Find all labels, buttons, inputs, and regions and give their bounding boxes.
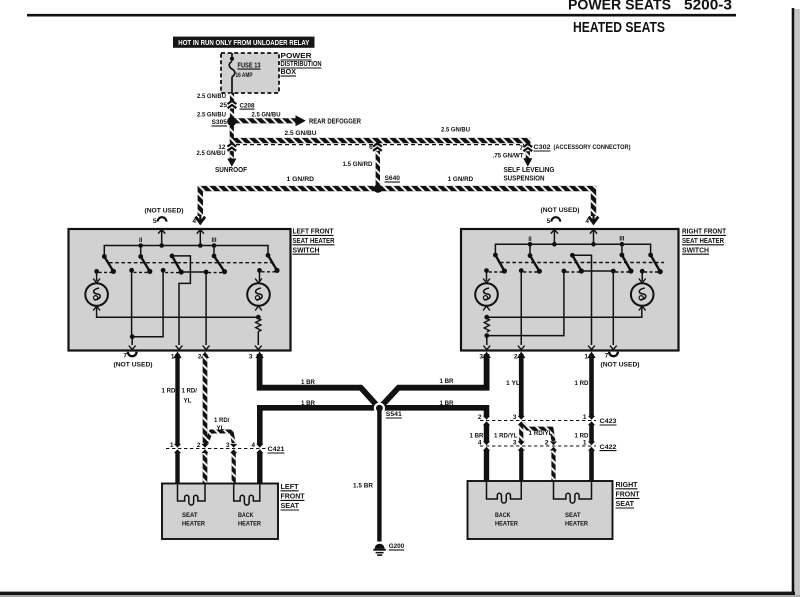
label C422 pin 3 (513, 440, 517, 447)
right front seat heater switch box (461, 229, 679, 351)
label G200 (389, 543, 405, 550)
svg-text:HOT IN RUN ONLY FROM UNLOADER: HOT IN RUN ONLY FROM UNLOADER RELAY (178, 40, 309, 47)
svg-text:SEAT: SEAT (182, 512, 198, 519)
right drop contact to pin3 jog (484, 269, 566, 338)
right switch mechanical dashed line (500, 262, 664, 264)
svg-text:7: 7 (519, 145, 523, 152)
label C421 pin 2 (197, 442, 201, 449)
left switch mechanical dashed line (109, 262, 272, 264)
wire 2.5 GN/BU C208 to S305 (230, 108, 234, 121)
indicator lamp right-B (631, 279, 654, 311)
svg-text:G200: G200 (389, 543, 405, 550)
label SEAT HEATER (right seat) (565, 512, 588, 528)
label (NOT USED) left pin 7 (114, 362, 153, 369)
label SELF LEVELING SUSPENSION (504, 167, 556, 182)
wire 2.5 GN/BU to rear defogger (232, 115, 306, 126)
indicator lamp right-A (475, 279, 498, 311)
page right border (792, 8, 795, 594)
connector C302 pin 7 (519, 144, 630, 152)
svg-text:2.5 GN/BU: 2.5 GN/BU (197, 111, 226, 118)
wire 1 RD/YL C423 pin3 to C422 pin3 (517, 425, 526, 481)
wire 1 BR S541 to C423 pin 2 (379, 408, 491, 481)
connector C208 pin 25 (220, 101, 255, 110)
right bus drop to pivot 4 (621, 244, 623, 255)
svg-text:C423: C423 (600, 418, 617, 425)
label C422 pin 2 (545, 440, 549, 447)
svg-text:1 RD: 1 RD (575, 380, 589, 387)
label HOT IN RUN ONLY FROM UNLOADER RELAY (173, 37, 315, 48)
left front seat heater switch box (69, 229, 291, 351)
svg-text:SEAT HEATER: SEAT HEATER (293, 238, 335, 245)
left lamp 1 terminal (94, 269, 99, 281)
right contact to pin 7 link (581, 269, 616, 350)
right switch arm 5 (648, 253, 663, 275)
wire 2.5 GN/BU to sunroof (227, 151, 236, 167)
label III (right box) (619, 237, 624, 243)
label LEFT FRONT SEAT (281, 484, 306, 510)
label BACK HEATER (right seat) (495, 512, 518, 528)
right lamp 1 terminal (484, 268, 489, 281)
label II (left box) (139, 238, 143, 244)
svg-text:5200-3: 5200-3 (684, 0, 732, 14)
wire 1 BR right switch pin3 to S541 (379, 352, 490, 409)
connector C423 dashed line (480, 420, 596, 422)
svg-text:SWITCH: SWITCH (293, 247, 320, 254)
right switch supply bus (495, 242, 650, 255)
svg-text:5: 5 (547, 218, 551, 225)
svg-text:4: 4 (192, 218, 196, 225)
left bus drop to pivot 4 (213, 246, 215, 256)
right seat heater element (554, 481, 592, 503)
svg-text:SEAT: SEAT (616, 501, 635, 508)
svg-text:HEATER: HEATER (495, 521, 518, 528)
svg-text:1 BR: 1 BR (301, 400, 315, 407)
wire 1 RD right pin1 to seat (587, 352, 596, 482)
label 2.5 GN/BU (sunroof) (197, 150, 226, 157)
svg-text:II: II (528, 237, 532, 243)
svg-text:REAR DEFOGGER: REAR DEFOGGER (309, 119, 361, 126)
label C421 pin 3 (226, 442, 230, 449)
left pin 5 not-used arc (153, 217, 167, 225)
svg-text:YL: YL (217, 425, 225, 432)
svg-text:BOX: BOX (281, 69, 297, 76)
wire 1.5 GN/RD junction 6 to S640 (376, 151, 380, 188)
svg-text:1 RD: 1 RD (162, 388, 176, 395)
label FUSE 13 16 AMP (236, 62, 261, 79)
left jumper 1 RD/YL C421 pin2 to pin3 (207, 432, 234, 444)
wire 1 RD/YL left pin2 to seat (201, 352, 210, 484)
right drop contact to pin 2 (518, 268, 525, 349)
svg-text:4: 4 (478, 440, 482, 447)
svg-text:1: 1 (170, 442, 174, 449)
svg-text:III: III (211, 238, 216, 244)
left bus drop to pivot 2 (140, 246, 142, 257)
right pin 7 not-used arc (605, 352, 618, 360)
svg-text:HEATER: HEATER (565, 521, 588, 528)
splice S305 (227, 117, 236, 126)
left contact dashes (99, 271, 275, 274)
svg-text:1.5 BR: 1.5 BR (353, 483, 373, 490)
svg-text:DISTRIBUTION: DISTRIBUTION (281, 61, 322, 68)
wire end V at left switch pin 4 (196, 215, 206, 224)
label 1 BR (upper right) (440, 378, 454, 385)
svg-text:HEATER: HEATER (238, 521, 261, 528)
label 2.5 GN/BU (defogger branch) (252, 111, 281, 118)
svg-text:2.5 GN/BU: 2.5 GN/BU (285, 130, 317, 137)
left pin 7 not-used arc (123, 352, 136, 360)
svg-text:16 AMP: 16 AMP (236, 72, 254, 79)
svg-text:HEATER: HEATER (182, 521, 205, 528)
label C421 pin 1 (170, 442, 174, 449)
right switch arm 3 (570, 253, 584, 274)
connector pin 12 (218, 143, 236, 150)
connector C421 dashed line (166, 448, 266, 450)
wire 2.5 GN/BU tee to C302 corner (232, 141, 528, 144)
svg-text:BACK: BACK (495, 512, 511, 519)
left contact to pin 2 link (181, 270, 209, 350)
title POWER SEATS 5200-3 (568, 0, 732, 14)
label 1 RD (left) (162, 388, 176, 395)
label 1 BR (lower right) (440, 400, 454, 407)
left lamp 2 terminal (257, 268, 262, 281)
svg-text:POWER: POWER (281, 53, 312, 60)
label RIGHT FRONT SEAT HEATER SWITCH (682, 229, 727, 255)
label 1 YL (506, 380, 520, 387)
svg-text:2: 2 (198, 353, 202, 360)
right pin 4 entry (590, 229, 597, 244)
label left pin 2 (198, 353, 202, 360)
svg-text:2.5 GN/BU: 2.5 GN/BU (197, 93, 226, 100)
right lamp bottom bus (484, 306, 641, 320)
svg-text:3: 3 (513, 414, 517, 421)
left drop contact to pin7 jog B (130, 268, 166, 339)
dashed connector plane line (236, 144, 524, 146)
right contact dashes (489, 271, 658, 273)
label (NOT USED) right pin 7 (601, 362, 640, 369)
svg-text:1 BR: 1 BR (440, 400, 454, 407)
left pin 5 entry (158, 229, 165, 246)
svg-text:FRONT: FRONT (281, 494, 306, 501)
svg-text:1 RD: 1 RD (575, 433, 589, 440)
label 2.5 GN/BU (above S305) (197, 111, 226, 118)
svg-text:SUNROOF: SUNROOF (215, 167, 248, 174)
svg-text:1 RD/: 1 RD/ (214, 417, 230, 424)
label C422 (600, 444, 617, 451)
svg-text:LEFT FRONT: LEFT FRONT (293, 229, 335, 236)
label left pin 1 (171, 353, 175, 360)
svg-text:SUSPENSION: SUSPENSION (504, 175, 545, 182)
left front seat box (162, 484, 278, 540)
svg-text:2: 2 (545, 440, 549, 447)
label left pin 3 (249, 353, 253, 360)
svg-text:1 GN/RD: 1 GN/RD (287, 176, 315, 183)
svg-text:S305: S305 (212, 119, 228, 126)
left switch arm 4 (212, 254, 227, 275)
label C422 pin 1 (583, 440, 587, 447)
svg-text:1 BR: 1 BR (470, 433, 484, 440)
label LEFT FRONT SEAT HEATER SWITCH (293, 229, 335, 255)
left pivot3 route to pin 1 (172, 256, 190, 350)
page bottom margin shading (0, 595, 800, 597)
svg-text:1 RD/YL: 1 RD/YL (529, 430, 553, 437)
page bottom rule (0, 592, 795, 595)
right switch arm 4 (620, 253, 634, 274)
wire end V at right switch pin 4 (589, 215, 599, 224)
right lamp 2 terminal (640, 269, 645, 281)
svg-text:S541: S541 (386, 411, 402, 418)
svg-text:2: 2 (197, 442, 201, 449)
svg-text:(NOT USED): (NOT USED) (114, 362, 153, 369)
label 2.5 GN/BU (fuse out) (197, 93, 226, 100)
label 1 BR (between C423 C422) (470, 433, 484, 440)
svg-text:BACK: BACK (238, 512, 254, 519)
label 1 RD (right upper) (575, 380, 589, 387)
right resistor (483, 319, 490, 350)
svg-text:2.5 GN/BU: 2.5 GN/BU (197, 150, 226, 157)
left switch supply bus (104, 243, 268, 256)
label left pin 4 (192, 218, 196, 225)
left seat heater element (178, 484, 206, 506)
label III (left box) (211, 238, 216, 244)
subtitle HEATED SEATS (573, 20, 665, 36)
svg-text:FUSE 13: FUSE 13 (238, 62, 261, 69)
label 2.5 GN/BU (junction 6 to C302) (441, 127, 470, 134)
fuse F13 symbol (229, 62, 235, 94)
left switch arm 1 (102, 254, 116, 274)
left pin 4 entry (197, 229, 204, 246)
wire 1 BR S541 to C421 pin 4 (255, 408, 379, 484)
svg-text:1.5 GN/RD: 1.5 GN/RD (343, 161, 373, 168)
label S640 (385, 175, 401, 182)
wire .75 GN/WT to self leveling (523, 151, 532, 166)
svg-text:RIGHT: RIGHT (616, 482, 639, 489)
svg-text:C422: C422 (600, 444, 617, 451)
page top rule (27, 14, 736, 17)
right front seat box (468, 481, 613, 539)
label SUNROOF (215, 167, 248, 174)
svg-text:1 RD/YL: 1 RD/YL (494, 433, 518, 440)
svg-text:3: 3 (479, 353, 483, 360)
page right margin shading (795, 9, 800, 597)
left switch arm 5 (266, 253, 280, 273)
junction 6 connector (369, 143, 382, 151)
right bus drop to pivot 2 (529, 244, 531, 255)
svg-text:7: 7 (605, 352, 609, 359)
svg-text:.75 GN/WT: .75 GN/WT (493, 153, 524, 160)
ground G200 (373, 544, 385, 556)
power distribution box (221, 53, 279, 93)
svg-text:3: 3 (226, 442, 230, 449)
svg-text:(NOT USED): (NOT USED) (601, 362, 640, 369)
svg-text:6: 6 (369, 144, 373, 151)
label SEAT HEATER (left seat) (182, 512, 205, 528)
label S305 (212, 119, 228, 126)
svg-text:RIGHT FRONT: RIGHT FRONT (682, 229, 727, 236)
svg-text:C421: C421 (268, 446, 285, 453)
connector C422 dashed line (480, 445, 596, 447)
label 1 RD/YL (right jumper) (529, 430, 553, 437)
splice S640 (374, 184, 382, 192)
label 1 BR (lower left) (301, 400, 315, 407)
left pin 7 drop (129, 337, 136, 350)
label REAR DEFOGGER (309, 119, 361, 126)
svg-text:5: 5 (153, 218, 157, 225)
svg-text:HEATED SEATS: HEATED SEATS (573, 20, 665, 36)
svg-text:25: 25 (220, 102, 228, 109)
label 1 RD/YL (right column) (494, 433, 518, 440)
indicator lamp left-B (247, 279, 270, 311)
svg-text:SWITCH: SWITCH (682, 247, 709, 254)
svg-text:2: 2 (478, 414, 482, 421)
svg-text:SEAT HEATER: SEAT HEATER (682, 238, 724, 245)
svg-text:LEFT: LEFT (281, 484, 300, 491)
svg-text:1: 1 (584, 353, 588, 360)
label C421 pin 4 (251, 442, 255, 449)
wire 1 RD left pin1 to seat (173, 352, 182, 484)
wire 1 RD/YL C422 pin2 to seat (549, 441, 558, 481)
wire 1 GN/RD main distribution (200, 189, 593, 216)
label (NOT USED) left pin 5 (145, 208, 184, 215)
label 2.5 GN/BU (tee to junction 6) (285, 130, 317, 137)
label 1.5 GN/RD (343, 161, 373, 168)
label 1 BR (upper left) (301, 379, 315, 386)
left switch arm 3 (170, 254, 184, 275)
left switch arm 2 (138, 254, 152, 274)
label C423 pin 1 (583, 414, 587, 421)
label right pin 4 (585, 218, 589, 225)
svg-text:1 YL: 1 YL (506, 380, 520, 387)
wire 1 RD/YL C421 pin3 to seat (229, 444, 238, 484)
left drop contact to pin7 jog A (129, 268, 134, 337)
svg-text:(NOT USED): (NOT USED) (145, 208, 184, 215)
svg-text:3: 3 (513, 440, 517, 447)
svg-text:SEAT: SEAT (281, 503, 300, 510)
svg-text:1 RD/: 1 RD/ (182, 388, 198, 395)
label right pin 1 (584, 353, 588, 360)
right pivot3 route to pin 1 (572, 255, 595, 349)
right pin 5 entry (551, 229, 558, 244)
wire 2.5 GN/BU S305 down to tee (230, 121, 234, 143)
label BACK HEATER (left seat) (238, 512, 261, 528)
label S541 (386, 411, 402, 418)
svg-text:1: 1 (583, 414, 587, 421)
svg-text:1 BR: 1 BR (440, 378, 454, 385)
label 1 RD/YL (left column) (182, 388, 198, 405)
left back heater element (234, 484, 260, 506)
right switch arm 2 (528, 253, 542, 274)
right switch arm 1 (493, 253, 507, 274)
label 1 GN/RD (left) (287, 176, 315, 183)
svg-text:1 BR: 1 BR (301, 379, 315, 386)
label 1.5 BR (353, 483, 373, 490)
svg-text:YL: YL (184, 398, 192, 405)
right back heater element (487, 481, 522, 503)
label 1 RD (right lower) (575, 433, 589, 440)
splice S541 (374, 403, 385, 414)
label 1 GN/RD (right) (448, 176, 474, 183)
left lamp bottom bus (97, 306, 261, 320)
label (NOT USED) right pin 5 (541, 207, 580, 214)
svg-text:SEAT: SEAT (565, 512, 581, 519)
label 1 RD/YL (left jumper) (214, 417, 230, 432)
svg-text:4: 4 (251, 442, 255, 449)
label right pin 2 (514, 353, 518, 360)
svg-text:1 GN/RD: 1 GN/RD (448, 176, 474, 183)
svg-text:3: 3 (249, 353, 253, 360)
svg-text:SELF LEVELING: SELF LEVELING (504, 167, 556, 174)
svg-text:S640: S640 (385, 175, 401, 182)
svg-text:(ACCESSORY CONNECTOR): (ACCESSORY CONNECTOR) (554, 144, 631, 151)
wire 1 YL right pin2 to C423 (517, 352, 526, 426)
wire 1 BR left switch pin3 to S541 (255, 352, 379, 409)
indicator lamp left-A (85, 279, 108, 311)
label II (right box) (528, 237, 532, 243)
label POWER DISTRIBUTION BOX (281, 53, 322, 76)
svg-text:1: 1 (583, 440, 587, 447)
label C421 (268, 446, 285, 453)
svg-text:III: III (619, 237, 624, 243)
svg-text:FRONT: FRONT (616, 492, 641, 499)
svg-text:7: 7 (123, 352, 127, 359)
right pin 5 not-used arc (547, 217, 561, 225)
right jumper 1 RD/YL C423 pin3 to C422 pin2 (523, 423, 554, 441)
svg-text:(NOT USED): (NOT USED) (541, 207, 580, 214)
svg-text:POWER SEATS: POWER SEATS (568, 0, 671, 14)
wire fuse feed inside box (230, 53, 234, 61)
svg-text:C208: C208 (240, 102, 255, 109)
label RIGHT FRONT SEAT (616, 482, 641, 508)
wire 1.5 BR S541 to ground (377, 408, 381, 541)
svg-text:4: 4 (585, 218, 589, 225)
label C423 (600, 418, 617, 425)
left resistor (255, 319, 262, 350)
svg-text:2.5 GN/BU: 2.5 GN/BU (252, 111, 281, 118)
svg-text:II: II (139, 238, 143, 244)
label right pin 3 (479, 353, 483, 360)
svg-text:2.5 GN/BU: 2.5 GN/BU (441, 127, 470, 134)
label C422 pin 4 (478, 440, 482, 447)
svg-text:2: 2 (514, 353, 518, 360)
wire 2.5 GN/BU fusebox to C208 (230, 93, 234, 101)
label .75 GN/WT (493, 153, 524, 160)
svg-text:C302: C302 (534, 144, 551, 151)
label C423 pin 2 (478, 414, 482, 421)
label C423 pin 3 (513, 414, 517, 421)
